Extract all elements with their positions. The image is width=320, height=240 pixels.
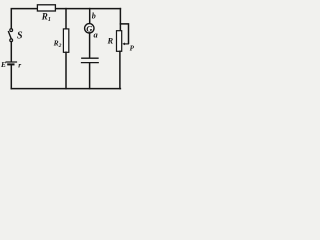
resistor R2 bbox=[63, 29, 68, 52]
svg-text:r: r bbox=[18, 60, 21, 69]
svg-text:b: b bbox=[92, 12, 96, 21]
wire R2 branch bottom bbox=[65, 52, 67, 88]
resistor R1 bbox=[37, 5, 55, 11]
svg-text:P: P bbox=[130, 44, 135, 52]
wire top-left segment bbox=[11, 9, 37, 29]
wire top-middle segment bbox=[55, 8, 120, 10]
svg-text:S: S bbox=[17, 31, 23, 42]
battery E short plate bbox=[8, 63, 13, 65]
capacitor top plate bbox=[82, 57, 98, 59]
resistor R bbox=[117, 31, 122, 52]
svg-text:G: G bbox=[86, 23, 93, 33]
wire R bottom lead bbox=[119, 51, 121, 88]
wire R2 branch top bbox=[65, 9, 67, 29]
wire capacitor bottom bbox=[89, 63, 91, 88]
switch S bbox=[10, 29, 13, 32]
wire slider jog bbox=[120, 24, 128, 43]
slider arrow P bbox=[122, 43, 129, 46]
wire left-middle segment bbox=[10, 42, 12, 61]
wire right branch bbox=[119, 9, 121, 31]
wire G to capacitor bbox=[89, 33, 91, 58]
galvanometer G bbox=[85, 24, 94, 33]
svg-text:R: R bbox=[107, 36, 114, 46]
wire left-bottom segment bbox=[10, 65, 12, 89]
svg-text:E: E bbox=[0, 60, 6, 69]
wire bottom bbox=[11, 88, 120, 90]
capacitor bottom plate bbox=[82, 62, 99, 64]
wire G branch top bbox=[89, 9, 91, 24]
battery E long plate bbox=[6, 61, 16, 63]
